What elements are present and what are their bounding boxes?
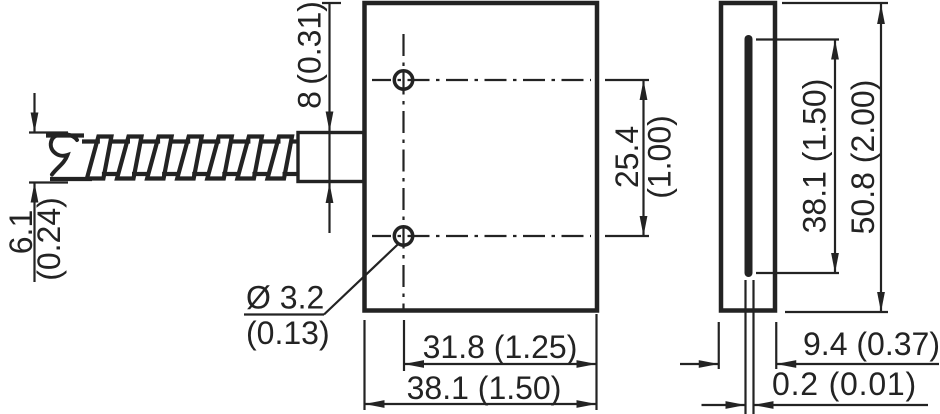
wrap gap bottom segments: [102, 172, 297, 176]
mounting hole top: [394, 71, 412, 89]
side view slot: [745, 39, 753, 273]
svg-text:0.2 (0.01): 0.2 (0.01): [772, 366, 917, 402]
slot gap lines: [744, 280, 746, 414]
cable sleeve: [298, 133, 364, 182]
svg-text:(1.00): (1.00): [642, 115, 678, 199]
cable end curl: [51, 134, 77, 174]
wrap gap top segments: [82, 139, 297, 143]
dim 31.8: [403, 320, 405, 371]
svg-text:Ø 3.2: Ø 3.2: [246, 280, 324, 316]
dim 38.1 side: [756, 38, 839, 40]
svg-text:9.4 (0.37): 9.4 (0.37): [803, 326, 940, 362]
svg-text:25.4: 25.4: [609, 126, 645, 188]
dim 8 line: [328, 3, 330, 233]
svg-text:38.1 (1.50): 38.1 (1.50): [407, 370, 562, 406]
svg-text:31.8 (1.25): 31.8 (1.25): [423, 329, 578, 365]
dim 0.2: [702, 404, 746, 406]
svg-text:50.8 (2.00): 50.8 (2.00): [845, 80, 881, 235]
svg-text:(0.24): (0.24): [31, 197, 67, 281]
cable left piece bottom edge: [50, 177, 92, 181]
svg-text:8 (0.31): 8 (0.31): [292, 1, 328, 109]
front view body outline: [365, 3, 598, 311]
dim 9.4: [718, 322, 720, 369]
vertical centerline: [402, 34, 404, 310]
dim 50.8 side: [782, 2, 888, 4]
svg-text:38.1 (1.50): 38.1 (1.50): [797, 79, 833, 234]
svg-text:(0.13): (0.13): [246, 315, 330, 351]
side view outline: [721, 3, 775, 311]
leader diameter 3.2: [244, 313, 324, 315]
dim 25.4: [605, 79, 649, 81]
cable spiral-wrap bands: [82, 137, 297, 179]
dim 38.1 bottom: [363, 320, 365, 410]
horizontal centerline top hole: [372, 79, 591, 81]
dim 6.1 lines: [33, 93, 35, 133]
horizontal centerline bottom hole: [372, 235, 591, 237]
cable left piece top edge: [46, 133, 84, 137]
mounting hole bottom: [394, 227, 412, 245]
